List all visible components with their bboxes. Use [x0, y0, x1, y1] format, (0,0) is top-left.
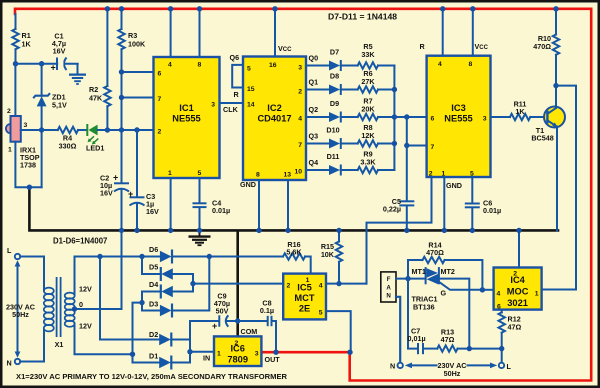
svg-text:D7-D11 = 1N4148: D7-D11 = 1N4148 [328, 12, 397, 22]
wire bus to IC3 pin6 [394, 116, 426, 118]
resistor R2 [89, 9, 111, 130]
svg-text:0.01µ: 0.01µ [483, 206, 501, 215]
svg-text:5: 5 [319, 310, 323, 317]
wire IC5 pin2 to D5/D4 junction [193, 283, 283, 285]
svg-text:0.01µ: 0.01µ [212, 206, 230, 215]
terminal N (output) [398, 363, 403, 368]
svg-text:X1=230V AC PRIMARY TO 12V-0-12: X1=230V AC PRIMARY TO 12V-0-12V, 250mA S… [16, 372, 288, 381]
svg-text:47Ω: 47Ω [441, 335, 455, 344]
resistor R13 [437, 328, 501, 352]
node A: R1/C1/TSOP junction [13, 61, 18, 66]
capacitor C5 [383, 146, 414, 231]
capacitor C3 (electrolytic) [128, 130, 159, 230]
wire IC3 pin3 to R11 [491, 116, 511, 118]
node TSOP gnd junction [27, 185, 32, 190]
wire IC1 pin3 CLK to IC2 pin14 [220, 102, 244, 104]
svg-text:N: N [390, 362, 395, 371]
svg-text:7809: 7809 [227, 355, 248, 365]
svg-text:F: F [387, 276, 391, 283]
svg-text:470Ω: 470Ω [533, 42, 551, 51]
wire IC2 pin16 to Vcc rail [274, 9, 276, 57]
svg-text:MT2: MT2 [441, 267, 455, 276]
svg-text:7: 7 [431, 144, 435, 151]
wire D6 cathode to R16 [172, 256, 283, 258]
svg-text:Q6: Q6 [230, 53, 240, 62]
wire to IC3 pin7 [407, 117, 427, 146]
wire secondary top tap to D6 row [74, 257, 76, 295]
svg-text:N: N [386, 293, 391, 300]
svg-text:6: 6 [158, 71, 162, 78]
capacitor C6 [465, 177, 501, 230]
diode D2 [100, 257, 190, 352]
svg-text:N: N [7, 359, 12, 368]
diode D3 [142, 257, 209, 318]
capacitor C2 (electrolytic) [100, 130, 129, 230]
triac TRIAC1 BT136 [412, 267, 483, 312]
svg-text:IN: IN [203, 354, 210, 363]
svg-text:D7: D7 [330, 48, 339, 57]
diode D9 + resistor R7 row Q2 [306, 97, 394, 123]
svg-text:4: 4 [497, 291, 501, 298]
svg-text:1738: 1738 [20, 161, 36, 170]
svg-text:16: 16 [269, 62, 277, 69]
svg-text:+: + [113, 173, 118, 183]
transistor T1 BC548 [531, 86, 565, 231]
wire IC2 pin13 to ground [287, 180, 289, 230]
wire IC1 pin8 to Vcc rail [199, 9, 201, 57]
svg-text:1: 1 [535, 291, 539, 298]
wire ZD1 branch [41, 64, 43, 188]
svg-text:Q4: Q4 [309, 158, 319, 167]
svg-text:MT1: MT1 [412, 267, 426, 276]
svg-text:3: 3 [211, 102, 215, 109]
svg-text:3021: 3021 [507, 298, 528, 308]
capacitor C4 [193, 178, 231, 230]
svg-text:8: 8 [469, 61, 473, 68]
svg-text:IC5: IC5 [297, 283, 311, 293]
svg-text:6: 6 [497, 304, 501, 311]
svg-text:Q3: Q3 [309, 132, 319, 141]
svg-text:NE555: NE555 [172, 114, 200, 124]
wire L to primary [20, 257, 44, 291]
svg-text:100K: 100K [128, 40, 146, 49]
svg-text:R: R [234, 90, 240, 99]
wire secondary bottom tap [75, 324, 133, 355]
transformer X1 secondary [65, 293, 75, 327]
svg-text:MCT: MCT [294, 293, 314, 303]
resistor R11 [510, 100, 547, 121]
svg-text:BC548: BC548 [531, 134, 553, 143]
svg-text:Q2: Q2 [309, 105, 319, 114]
ground symbol (center, below rail) [189, 230, 211, 245]
resistor R10 [533, 9, 559, 86]
wire IC1 pin7 row [122, 97, 154, 99]
svg-text:IC2: IC2 [267, 103, 281, 113]
svg-text:16V: 16V [146, 207, 159, 216]
wire IC5 pin5 to +9V [326, 311, 351, 352]
wire pin3 row [21, 129, 58, 131]
svg-text:10K: 10K [321, 250, 335, 259]
svg-text:D1: D1 [149, 352, 158, 361]
svg-text:3: 3 [255, 351, 259, 358]
terminal L (mains input) [15, 254, 20, 259]
capacitor C8 [238, 299, 276, 353]
svg-text:D4: D4 [149, 280, 158, 289]
svg-text:R: R [420, 42, 426, 51]
transformer X1 primary [44, 288, 54, 332]
svg-text:2: 2 [158, 129, 162, 136]
svg-text:IC1: IC1 [179, 103, 193, 113]
svg-text:2: 2 [287, 283, 291, 290]
resistor R3 [118, 9, 146, 130]
wire IC1 pin4 to Vcc rail [170, 9, 172, 57]
wire [78, 129, 86, 131]
wire summing bus [393, 66, 395, 171]
transformer X1 core [56, 277, 58, 337]
svg-text:D8: D8 [330, 72, 339, 81]
svg-text:D9: D9 [330, 99, 339, 108]
svg-text:50Hz: 50Hz [444, 369, 461, 378]
svg-text:4: 4 [168, 62, 172, 69]
wire FAN to N line [396, 297, 400, 363]
IR receiver module IRX1 TSOP1738 [6, 64, 42, 188]
svg-text:Q1: Q1 [309, 78, 319, 87]
svg-text:X1: X1 [55, 340, 64, 349]
resistor R1 [12, 14, 31, 64]
svg-text:0.1µ: 0.1µ [260, 306, 274, 315]
node T1 collector / wire to IC4 pin1 [553, 83, 558, 88]
svg-text:47Ω: 47Ω [508, 323, 522, 332]
resistor R15 [321, 230, 342, 283]
diode D8 + resistor R6 row Q1 [306, 69, 394, 95]
svg-text:COM: COM [241, 327, 258, 336]
svg-text:5: 5 [198, 170, 202, 177]
svg-text:20K: 20K [361, 105, 375, 114]
svg-text:6: 6 [431, 116, 435, 123]
wire IC1 pin6 row [122, 71, 154, 73]
wire MT2 down to snubber row [439, 279, 469, 349]
terminal L (output) [499, 363, 504, 368]
svg-text:D10: D10 [326, 126, 339, 135]
diode D4 [133, 280, 196, 363]
LED1 (green, pointing left) [86, 124, 104, 153]
svg-text:1K: 1K [22, 40, 32, 49]
wire D6 anode row [75, 256, 161, 258]
wire IC2 pin8 to ground [258, 180, 260, 230]
svg-text:330Ω: 330Ω [59, 142, 77, 151]
ground COM drop to IC6 pin2 (black) [236, 231, 239, 336]
svg-text:1: 1 [8, 147, 12, 154]
svg-text:3: 3 [24, 122, 28, 129]
svg-text:D1-D6=1N4007: D1-D6=1N4007 [53, 237, 107, 246]
svg-text:5,1V: 5,1V [52, 101, 67, 110]
counter IC2 CD4017 [243, 57, 306, 181]
regulator IC6 7809 [214, 327, 280, 366]
svg-text:GND: GND [446, 181, 462, 190]
svg-text:13: 13 [284, 172, 292, 179]
wire FAN to MT1 [396, 278, 426, 280]
diode D10 + resistor R8 row Q3 [306, 123, 394, 149]
svg-text:BT136: BT136 [413, 303, 435, 312]
svg-text:0,01µ: 0,01µ [408, 334, 426, 343]
svg-text:L: L [507, 362, 512, 371]
svg-text:4: 4 [298, 116, 302, 123]
svg-text:470Ω: 470Ω [426, 248, 444, 257]
svg-text:2E: 2E [299, 304, 310, 314]
resistor R12 [499, 310, 522, 363]
svg-text:8: 8 [256, 172, 260, 179]
svg-text:50Hz: 50Hz [12, 310, 29, 319]
optotriac IC4 MOC3021 [494, 268, 542, 311]
wire IC4 pin2 to ground rail [518, 230, 520, 267]
diode D11 + resistor R9 row Q4 [306, 150, 394, 176]
svg-text:MOC: MOC [507, 287, 529, 297]
zener ZD1 [33, 93, 67, 110]
svg-text:2: 2 [235, 340, 239, 347]
svg-text:3: 3 [483, 116, 487, 123]
wire IC5 pin4 row [326, 283, 367, 285]
capacitor C1 [51, 32, 67, 73]
wire IC3 pin1 to ground [443, 177, 445, 230]
wire IC4 pin4 to gate node [482, 289, 493, 291]
svg-text:D6: D6 [149, 245, 158, 254]
node IN junction / wire to IC6 [187, 349, 192, 354]
svg-text:G: G [441, 289, 447, 298]
FAN load box [381, 272, 396, 302]
svg-text:15: 15 [247, 86, 255, 93]
svg-text:L: L [7, 246, 12, 255]
svg-text:27K: 27K [361, 77, 375, 86]
svg-text:D11: D11 [327, 152, 340, 161]
resistor R16 [283, 240, 311, 274]
svg-text:+: + [51, 63, 56, 73]
svg-text:3: 3 [298, 65, 302, 72]
svg-text:12V: 12V [79, 285, 92, 294]
svg-text:+: + [212, 321, 217, 331]
svg-text:5,6K: 5,6K [286, 248, 302, 257]
svg-text:14: 14 [247, 102, 255, 109]
svg-text:IC3: IC3 [451, 103, 465, 113]
ground (C1) [69, 64, 86, 84]
svg-text:Q0: Q0 [309, 54, 319, 63]
svg-text:8: 8 [198, 62, 202, 69]
svg-text:7: 7 [158, 96, 162, 103]
diode D1 [130, 352, 190, 370]
wire centre tap to ground [75, 230, 122, 309]
terminal N (mains input) [15, 359, 20, 364]
svg-text:2: 2 [513, 271, 517, 278]
svg-text:12K: 12K [361, 131, 375, 140]
svg-text:D5: D5 [149, 263, 158, 272]
capacitor C7 [408, 279, 438, 355]
svg-text:D2: D2 [149, 330, 158, 339]
svg-text:1: 1 [306, 277, 310, 284]
svg-text:A: A [386, 284, 391, 291]
svg-text:0,22µ: 0,22µ [383, 205, 401, 214]
wire IC3 pin2 to IC5 pin4 net [367, 177, 432, 284]
svg-text:0: 0 [79, 300, 83, 309]
optocoupler IC5 MCT2E [283, 274, 326, 320]
svg-text:2: 2 [7, 108, 11, 115]
svg-text:4: 4 [319, 283, 323, 290]
svg-text:16V: 16V [53, 47, 66, 56]
svg-text:1: 1 [217, 351, 221, 358]
wire IC3 pin4 R to rail [442, 9, 444, 56]
svg-text:+: + [128, 189, 133, 199]
wire [16, 63, 78, 65]
svg-text:5: 5 [247, 66, 251, 73]
svg-text:12V: 12V [79, 322, 92, 331]
op-amp/timer IC1 NE555 [154, 57, 220, 178]
wire IC1 pin1 to ground [170, 178, 172, 230]
wire N to primary [20, 330, 44, 362]
wire LED row to IC1 pin2 [98, 129, 154, 131]
svg-text:CLK: CLK [223, 105, 239, 114]
svg-text:47K: 47K [89, 94, 103, 103]
230V AC 50Hz arrow (left) [6, 260, 35, 357]
capacitor C9 (electrolytic) [190, 292, 238, 352]
svg-text:CD4017: CD4017 [257, 114, 291, 124]
wire IC3 pin8 Vcc to rail [472, 9, 474, 56]
svg-text:7: 7 [298, 142, 302, 149]
diode D6 [160, 251, 172, 262]
ground rail (black) [29, 189, 558, 231]
timer IC3 NE555 [427, 56, 491, 178]
resistor R14 [408, 241, 482, 290]
svg-text:3.3K: 3.3K [360, 158, 376, 167]
svg-text:1K: 1K [515, 107, 525, 116]
wire Q6(pin5) to R(pin15) loop [232, 65, 243, 88]
svg-text:OUT: OUT [265, 355, 281, 364]
svg-text:1: 1 [168, 170, 172, 177]
230V AC 50Hz arrow (bottom) [405, 361, 497, 378]
svg-text:10: 10 [294, 169, 302, 176]
svg-text:4: 4 [438, 61, 442, 68]
diode D7 + resistor R5 row Q0 [306, 42, 394, 71]
svg-text:2: 2 [298, 89, 302, 96]
svg-text:33K: 33K [361, 50, 375, 59]
svg-text:LED1: LED1 [86, 144, 104, 153]
svg-text:50V: 50V [216, 307, 229, 316]
diode D5 [142, 257, 193, 292]
svg-text:D3: D3 [149, 300, 158, 309]
svg-text:16V: 16V [100, 189, 113, 198]
resistor R4 [58, 127, 78, 151]
svg-text:GND: GND [240, 180, 256, 189]
svg-text:NE555: NE555 [444, 114, 472, 124]
